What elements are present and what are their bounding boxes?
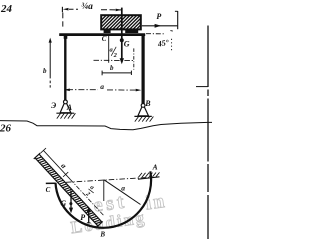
support B (pin) (134, 104, 153, 122)
label a/2 (diagonal fraction) (110, 47, 118, 59)
dimension a between columns (64, 89, 141, 92)
svg-text:A: A (152, 163, 158, 172)
force G (weight of rod) (69, 191, 73, 214)
diameter dash-dot line (66, 177, 149, 182)
svg-text:C: C (102, 35, 107, 43)
dimension 3/4a line (62, 7, 121, 27)
svg-text:24: 24 (0, 3, 13, 15)
svg-text:A: A (66, 103, 73, 112)
svg-text:B: B (99, 231, 105, 239)
rim tick at C (46, 182, 56, 184)
radius line a (104, 180, 141, 205)
svg-text:P: P (156, 12, 161, 21)
left vertical dimension line (49, 38, 52, 88)
label a/2 near O (84, 184, 98, 200)
svg-text:Э: Э (51, 101, 56, 110)
wall ledge at A with hatching (138, 172, 160, 179)
svg-text:in: in (144, 190, 168, 215)
right edge line of adjacent figure (196, 26, 208, 240)
block feet (104, 29, 111, 33)
beam (top horizontal) (59, 33, 145, 36)
svg-text:a: a (121, 184, 125, 193)
axis dash-dot horizontal through block centre level (94, 59, 135, 61)
extension line (dashed vertical, left column axis) (62, 13, 64, 19)
svg-text:b: b (110, 64, 114, 72)
extension line from C (108, 36, 110, 63)
extension dashed vertical right of G (133, 48, 135, 69)
svg-text:b: b (43, 67, 47, 75)
rod (ladder) (34, 144, 113, 227)
svg-text:¾a: ¾a (81, 1, 93, 12)
svg-text:45°: 45° (156, 38, 170, 49)
left column top knob (64, 36, 68, 39)
force P arrow (142, 11, 178, 31)
svg-text:2: 2 (113, 52, 118, 59)
hatched block (trolley) (90, 15, 155, 34)
svg-text:a: a (100, 82, 104, 91)
bowl (semicircular arc) (56, 171, 152, 228)
dotted vertical under 45deg (171, 39, 173, 53)
svg-text:C: C (46, 186, 51, 194)
svg-text:P: P (80, 213, 85, 222)
svg-text:26: 26 (0, 123, 12, 135)
svg-text:G: G (60, 199, 66, 208)
lower small dimension line (102, 71, 131, 76)
svg-text:B: B (144, 99, 151, 108)
watermark (70, 190, 168, 237)
svg-text:G: G (124, 39, 130, 48)
svg-text:2: 2 (84, 190, 92, 198)
rod hatching (36, 155, 101, 225)
force G line with dot and arrowhead (120, 8, 124, 65)
left column (64, 35, 66, 101)
rod dimension line (a and a/2) (41, 148, 46, 153)
support A (pin) (56, 100, 75, 119)
torn paper separator (0, 121, 212, 130)
dash-dot line to 45deg (146, 33, 166, 35)
right column (142, 35, 145, 104)
force P (fig26) (87, 206, 91, 223)
vertical line from centre O (103, 180, 105, 201)
